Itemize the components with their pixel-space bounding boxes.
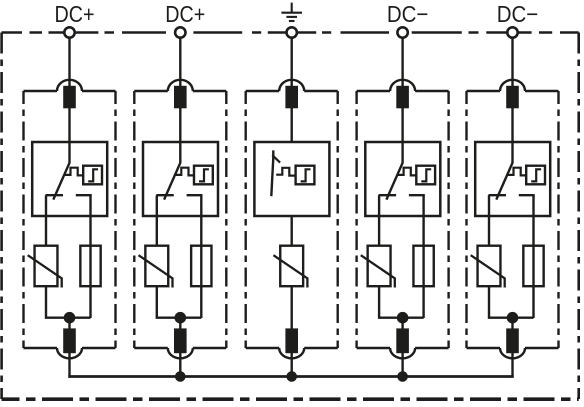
varistor (MOV) module 4	[361, 246, 395, 288]
disconnector contact tick	[272, 155, 280, 162]
mechanical linkage to monitor	[175, 168, 194, 176]
junction node module 5	[507, 312, 519, 324]
module box 1 right edge	[114, 91, 116, 348]
module 2 plug-in contact arc (top)	[168, 80, 193, 91]
module box 1 bottom edge	[24, 347, 116, 349]
wire	[401, 318, 403, 329]
module 5 terminal contact (bottom, solid)	[506, 328, 519, 353]
module 4 plug-in contact arc (top)	[390, 80, 415, 91]
wire (branch join)	[157, 286, 202, 318]
module 1 terminal contact (bottom, solid)	[63, 328, 76, 353]
switch fixed contact left	[379, 194, 397, 196]
protection module box 5 top edge	[467, 90, 559, 92]
monitoring element (status indication) module 1	[83, 166, 102, 185]
module 4 terminal contact (bottom, solid)	[396, 328, 409, 353]
wire	[511, 318, 513, 329]
fuse / disconnect element module 5	[523, 246, 543, 287]
module 4 plug-in contact arc (bottom)	[390, 348, 415, 358]
wire	[291, 216, 293, 247]
wire	[179, 108, 181, 143]
wire (switch feed)	[401, 142, 403, 163]
junction node module 2	[175, 312, 187, 324]
wire (switch feed)	[179, 142, 181, 163]
wire (right branch, through fuse)	[532, 195, 534, 318]
switch fixed contact right	[409, 194, 425, 196]
fuse / disconnect element module 1	[80, 246, 100, 287]
protection module box 2 top edge	[134, 90, 226, 92]
monitoring element (status indication) module 2	[194, 166, 213, 185]
enclosure top edge (dash-dot wire bus to terminals)	[2, 31, 579, 34]
step-signal glyph	[531, 169, 541, 181]
enclosure bottom edge	[2, 397, 579, 401]
step-signal glyph	[199, 169, 209, 181]
thermal disconnector / SCI switch box 5	[475, 142, 550, 216]
module box 4 right edge	[447, 91, 449, 348]
thermal disconnector / SCI switch box 2	[143, 142, 218, 216]
module 3 plug-in contact arc (top)	[279, 80, 304, 91]
wire	[291, 38, 293, 87]
junction node module 4	[397, 312, 409, 324]
monitoring element (status indication) module 3	[296, 166, 315, 185]
switch fixed contact right	[76, 194, 92, 196]
thermal disconnector / SCI switch box 4	[365, 142, 440, 216]
wire	[291, 353, 293, 378]
wire	[511, 108, 513, 143]
protection module box 1 top edge	[24, 90, 116, 92]
switch fixed contact left	[489, 194, 507, 196]
wire	[511, 38, 513, 87]
wire (branch join)	[489, 286, 534, 318]
wire (right branch, through fuse)	[422, 195, 424, 318]
wire	[179, 353, 181, 378]
step-signal glyph	[301, 169, 311, 181]
monitoring element (status indication) module 4	[416, 166, 435, 185]
mechanical linkage to monitor	[398, 168, 417, 176]
module box 3 bottom edge	[246, 347, 338, 349]
wire (right branch, through fuse)	[200, 195, 202, 318]
module box 2 bottom edge	[134, 347, 226, 349]
monitoring element (status indication) module 5	[526, 166, 545, 185]
switch blade (open) module 1	[53, 163, 69, 200]
wire (left branch)	[488, 195, 490, 246]
wire (left branch)	[156, 195, 158, 246]
thermal disconnector / SCI switch box 1	[32, 142, 107, 216]
wire	[179, 318, 181, 329]
module box 4 left edge	[355, 91, 357, 348]
step-signal glyph	[421, 169, 431, 181]
module 3 terminal contact (bottom, solid)	[285, 328, 298, 353]
wire	[68, 353, 70, 378]
terminal node DC− (X5)	[507, 27, 517, 37]
svg-text:DC−: DC−	[387, 1, 429, 27]
module box 2 right edge	[225, 91, 227, 348]
varistor (MOV) module 1	[28, 246, 62, 288]
svg-text:DC+: DC+	[55, 1, 95, 27]
terminal node DC+ (X2)	[175, 27, 185, 37]
module box 5 right edge	[557, 91, 559, 348]
module box 5 left edge	[465, 91, 467, 348]
step-signal glyph	[88, 169, 98, 181]
wire	[401, 38, 403, 87]
wire (switch feed)	[68, 142, 70, 163]
bus junction node (module 2)	[175, 371, 186, 382]
enclosure left edge	[0, 33, 3, 400]
mechanical linkage to monitor	[507, 168, 526, 176]
module 2 terminal contact (top, solid)	[174, 86, 187, 109]
module 3 terminal contact (top, solid)	[285, 86, 298, 109]
varistor (MOV) module 5	[471, 246, 505, 288]
wire	[291, 286, 293, 329]
wire (branch join)	[379, 286, 424, 318]
module 4 terminal contact (top, solid)	[396, 86, 409, 109]
protection module box 3 top edge	[246, 90, 338, 92]
thermal disconnector / SCI switch box 3	[254, 142, 329, 216]
enclosure right edge	[577, 33, 580, 400]
fuse / disconnect element module 2	[191, 246, 211, 287]
wire (branch join)	[46, 286, 91, 318]
wire	[291, 108, 293, 143]
module 1 plug-in contact arc (bottom)	[57, 348, 82, 358]
switch blade (open) module 2	[164, 163, 180, 200]
varistor (MOV) module 3	[273, 246, 307, 288]
module box 1 left edge	[22, 91, 24, 348]
wire	[68, 318, 70, 329]
switch fixed contact left	[156, 194, 174, 196]
module box 2 left edge	[133, 91, 135, 348]
module box 5 bottom edge	[467, 347, 559, 349]
module 5 terminal contact (top, solid)	[506, 86, 519, 109]
module box 4 bottom edge	[357, 347, 449, 349]
disconnector blade (earth path) module 3	[271, 150, 273, 196]
bus junction node (module 4)	[397, 371, 408, 382]
terminal node DC+ (X1)	[64, 27, 74, 37]
module box 3 left edge	[244, 91, 246, 348]
terminal node PE (X3)	[287, 27, 297, 37]
wire	[401, 353, 403, 378]
mechanical linkage to monitor	[64, 168, 83, 176]
wire (right branch, through fuse)	[89, 195, 91, 318]
module 3 plug-in contact arc (bottom)	[279, 348, 304, 358]
mechanical linkage to monitor	[276, 168, 295, 176]
terminal node DC− (X4)	[397, 27, 407, 37]
module 2 plug-in contact arc (bottom)	[168, 348, 193, 358]
module 1 plug-in contact arc (top)	[57, 80, 82, 91]
svg-text:DC−: DC−	[497, 1, 539, 27]
svg-text:DC+: DC+	[165, 1, 205, 27]
switch fixed contact left	[46, 194, 64, 196]
module 1 terminal contact (top, solid)	[63, 86, 76, 109]
module 5 plug-in contact arc (bottom)	[500, 348, 525, 358]
wire	[401, 108, 403, 143]
bus junction node (module 3)	[286, 371, 297, 382]
wire (left branch)	[45, 195, 47, 246]
protection module box 4 top edge	[357, 90, 449, 92]
wire	[68, 108, 70, 143]
wire (left branch)	[378, 195, 380, 246]
module box 3 right edge	[337, 91, 339, 348]
wire	[179, 38, 181, 87]
module 2 terminal contact (bottom, solid)	[174, 328, 187, 353]
switch blade (open) module 5	[496, 163, 512, 200]
switch fixed contact right	[519, 194, 535, 196]
wire	[511, 353, 513, 378]
junction node module 1	[64, 312, 76, 324]
varistor (MOV) module 2	[139, 246, 173, 288]
switch blade (open) module 4	[386, 163, 402, 200]
fuse / disconnect element module 4	[413, 246, 433, 287]
wire (switch feed)	[511, 142, 513, 163]
PE equipotential bus wire	[68, 375, 513, 378]
wire	[68, 38, 70, 87]
earth / PE symbol	[281, 3, 302, 21]
module 5 plug-in contact arc (top)	[500, 80, 525, 91]
switch fixed contact right	[187, 194, 203, 196]
